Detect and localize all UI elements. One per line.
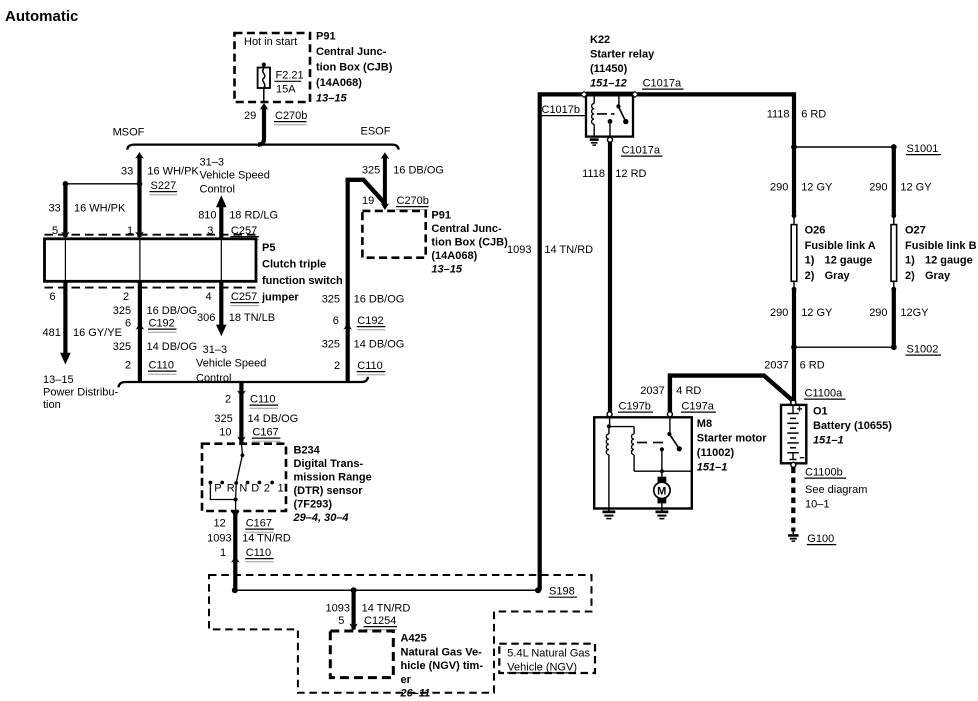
bus wire C110 (second horizontal) [119, 377, 369, 388]
svg-text:151–1: 151–1 [697, 462, 728, 474]
svg-text:S198: S198 [549, 586, 575, 598]
svg-text:4 RD: 4 RD [676, 385, 701, 397]
svg-text:mission Range: mission Range [294, 472, 372, 484]
svg-text:C1017b: C1017b [542, 104, 581, 116]
central junction box P91 (second, dashed) [362, 211, 425, 258]
svg-text:31–3: 31–3 [203, 344, 227, 356]
svg-text:P: P [214, 483, 221, 495]
svg-text:function switch: function switch [262, 275, 343, 287]
svg-text:Gray: Gray [925, 270, 951, 282]
svg-text:Automatic: Automatic [5, 8, 78, 25]
svg-text:P91: P91 [431, 210, 451, 222]
svg-text:1093: 1093 [507, 244, 531, 256]
svg-text:2: 2 [225, 394, 231, 406]
svg-text:(7F293): (7F293) [294, 499, 333, 511]
svg-text:K22: K22 [590, 34, 610, 46]
svg-text:2037: 2037 [640, 385, 664, 397]
node S227 (splice) [63, 180, 177, 195]
svg-text:4: 4 [206, 291, 212, 303]
svg-text:(14A068): (14A068) [431, 250, 477, 262]
svg-text:C167: C167 [246, 518, 272, 530]
central junction box P91 (top, dashed) [235, 33, 311, 102]
svg-text:2: 2 [334, 360, 340, 372]
svg-text:2: 2 [264, 483, 270, 495]
label block A425 Natural Gas Vehicle timer [400, 633, 484, 700]
svg-text:19: 19 [362, 195, 374, 207]
svg-text:C192: C192 [149, 318, 175, 330]
svg-text:C192: C192 [357, 315, 383, 327]
ground G100 [788, 532, 836, 546]
svg-text:16 DB/OG: 16 DB/OG [147, 305, 198, 317]
svg-text:14 TN/RD: 14 TN/RD [242, 533, 291, 545]
wire 325 14 DB/OG (bus down to DTR, 2 C110 / 10 C167) [214, 382, 298, 443]
svg-text:14 DB/OG: 14 DB/OG [354, 339, 405, 351]
clutch switch jumper P5 [45, 239, 257, 281]
svg-text:6 RD: 6 RD [800, 360, 825, 372]
svg-text:Clutch triple: Clutch triple [262, 259, 326, 271]
svg-text:31–3: 31–3 [200, 157, 224, 169]
svg-text:290: 290 [770, 182, 788, 194]
bus wire MSOF/ESOF (horizontal) [127, 145, 398, 150]
svg-text:12 GY: 12 GY [801, 307, 833, 319]
svg-text:C110: C110 [149, 360, 174, 372]
wire 33 16 WH/PK (S227 to P5 pin 5) [49, 184, 127, 239]
svg-text:12 gauge: 12 gauge [825, 255, 873, 267]
svg-text:6 RD: 6 RD [801, 109, 826, 121]
svg-text:12 gauge: 12 gauge [925, 255, 973, 267]
svg-text:Vehicle Speed: Vehicle Speed [196, 358, 266, 370]
svg-text:G100: G100 [807, 533, 834, 545]
svg-text:C1017a: C1017a [643, 78, 682, 90]
svg-text:12GY: 12GY [900, 307, 929, 319]
wire C1017b (relay feed, left vertical long run) [507, 94, 593, 590]
svg-text:325: 325 [322, 294, 340, 306]
svg-text:C257: C257 [231, 291, 257, 303]
fusible link A O26 [791, 216, 797, 292]
svg-text:12: 12 [214, 518, 226, 530]
starter relay K22 box [581, 91, 638, 136]
svg-text:O1: O1 [813, 406, 828, 418]
svg-text:290: 290 [869, 307, 887, 319]
battery O1 [781, 388, 846, 468]
svg-text:(11450): (11450) [590, 63, 628, 75]
svg-text:C197b: C197b [619, 401, 651, 413]
svg-text:16 WH/PK: 16 WH/PK [74, 203, 126, 215]
label 31-3 Vehicle Speed Control (top) [200, 157, 270, 196]
NGV option region (dashed polygon) [209, 575, 592, 693]
svg-text:M: M [657, 486, 666, 498]
svg-text:Central Junc-: Central Junc- [316, 46, 387, 58]
svg-text:S1002: S1002 [907, 344, 939, 356]
svg-text:C270b: C270b [275, 110, 307, 122]
svg-text:14 TN/RD: 14 TN/RD [544, 244, 593, 256]
note box 5.4L Natural Gas Vehicle (NGV) [499, 644, 595, 674]
wire 290 12 GY (right, into fusible link B) [891, 147, 896, 218]
pin labels 6 2 4 C257 (P5 bottom) [50, 291, 260, 306]
svg-text:C1254: C1254 [364, 615, 396, 627]
svg-text:S227: S227 [151, 180, 177, 192]
starter motor internals: switch [637, 417, 682, 451]
svg-text:15A: 15A [276, 84, 296, 96]
svg-text:Gray: Gray [825, 270, 851, 282]
relay coil [592, 93, 595, 137]
svg-text:C167: C167 [252, 427, 278, 439]
svg-text:6: 6 [125, 318, 131, 330]
wire 1093 14 TN/RD (S198 down to NGV timer, 5 C1254) [326, 590, 411, 630]
svg-text:tion Box (CJB): tion Box (CJB) [316, 62, 393, 74]
svg-text:325: 325 [113, 305, 131, 317]
wire C1100b (battery negative, dashed to G100) [793, 467, 867, 532]
svg-text:C197a: C197a [681, 401, 714, 413]
svg-text:1093: 1093 [207, 533, 231, 545]
svg-text:290: 290 [869, 182, 887, 194]
svg-text:5.4L Natural Gas: 5.4L Natural Gas [507, 648, 590, 660]
svg-text:F2.21: F2.21 [276, 70, 304, 82]
svg-text:5: 5 [338, 615, 344, 627]
wire 1093 14 TN/RD (DTR down to S198) [207, 511, 291, 590]
svg-text:2: 2 [125, 360, 131, 372]
label block B234 DTR sensor [293, 445, 372, 525]
svg-text:810: 810 [198, 210, 216, 222]
svg-text:33: 33 [121, 166, 133, 178]
svg-text:151–12: 151–12 [590, 78, 627, 90]
wire 2037 4 RD (starter motor solenoid feed) [618, 376, 792, 413]
wire 325 16 DB/OG (ESOF down from bus, 19 C270b) [362, 152, 444, 210]
svg-text:R: R [227, 483, 235, 495]
fuse F2.21 15A [258, 63, 304, 103]
svg-text:S1001: S1001 [907, 143, 939, 155]
svg-text:C1100a: C1100a [805, 388, 844, 400]
svg-text:16 WH/PK: 16 WH/PK [147, 166, 199, 178]
svg-text:26–11: 26–11 [400, 688, 431, 700]
ground (starter motor right) [656, 509, 669, 520]
svg-text:12 RD: 12 RD [615, 168, 646, 180]
label block P91 Central Junction Box (second) [431, 210, 508, 276]
ground (starter motor left) [603, 509, 616, 520]
label block K22 Starter relay [590, 34, 655, 90]
svg-text:Fusible link B: Fusible link B [905, 240, 977, 252]
svg-text:151–1: 151–1 [813, 435, 844, 447]
label block P5 Clutch triple function switch jumper [261, 242, 343, 304]
svg-text:tion: tion [43, 399, 61, 411]
svg-text:33: 33 [49, 203, 61, 215]
svg-text:1118: 1118 [767, 109, 790, 121]
wire 290 12GY (right lower) [869, 182, 932, 346]
wire 290 12 GY (left, into fusible link A) [792, 147, 797, 218]
svg-text:13–15: 13–15 [316, 93, 347, 105]
svg-text:hicle (NGV) tim-: hicle (NGV) tim- [401, 660, 484, 672]
svg-text:Power Distribu-: Power Distribu- [43, 387, 119, 399]
svg-text:14 DB/OG: 14 DB/OG [147, 341, 198, 353]
svg-text:481: 481 [43, 327, 61, 339]
svg-text:18 TN/LB: 18 TN/LB [229, 312, 275, 324]
svg-text:(14A068): (14A068) [316, 77, 362, 89]
svg-text:1093: 1093 [326, 603, 350, 615]
svg-text:6: 6 [50, 291, 56, 303]
svg-text:10: 10 [219, 427, 231, 439]
wire 306 18 TN/LB (P5 pin 4 down arrow) [196, 281, 275, 384]
wire 325 16 DB/OG (ESOF branch vertical down to bus) [322, 180, 405, 382]
svg-text:Control: Control [200, 184, 235, 196]
DTR sensor B234 (dashed box) [202, 444, 286, 511]
NGV timer A425 (heavy dashed box) [330, 631, 393, 678]
svg-text:er: er [401, 674, 412, 686]
svg-text:2): 2) [805, 270, 815, 282]
relay output pin [608, 119, 613, 142]
svg-text:325: 325 [362, 165, 380, 177]
svg-text:1: 1 [220, 547, 226, 559]
svg-text:B234: B234 [294, 445, 321, 457]
svg-text:14 DB/OG: 14 DB/OG [248, 413, 299, 425]
label block M8 Starter motor [697, 418, 767, 474]
wire 29 C270b (fuse output down to bus) [244, 103, 307, 145]
relay switch [616, 93, 628, 125]
svg-text:MSOF: MSOF [113, 127, 145, 139]
svg-text:13–15: 13–15 [431, 264, 462, 276]
svg-text:tion Box (CJB): tion Box (CJB) [431, 237, 508, 249]
svg-text:325: 325 [214, 413, 232, 425]
svg-text:C110: C110 [357, 360, 382, 372]
svg-text:18 RD/LG: 18 RD/LG [229, 210, 278, 222]
connector C257 dashed line (above P5) [45, 234, 257, 236]
svg-text:Battery (10655): Battery (10655) [813, 420, 892, 432]
svg-text:10–1: 10–1 [805, 499, 829, 511]
svg-text:A425: A425 [401, 633, 427, 645]
svg-text:Natural Gas Ve-: Natural Gas Ve- [401, 646, 483, 658]
svg-text:2): 2) [905, 270, 915, 282]
svg-text:jumper: jumper [261, 292, 299, 304]
svg-text:P91: P91 [316, 31, 336, 43]
wire 325 16/14 DB/OG (P5 pin 2 down to bus C110) [113, 281, 197, 382]
pin labels 5 1 3 C257 (P5 top) [52, 225, 259, 240]
node S198 (splice line) [232, 586, 577, 598]
svg-text:Vehicle (NGV): Vehicle (NGV) [507, 662, 577, 674]
svg-text:Starter relay: Starter relay [590, 49, 655, 61]
wire 481 16 GY/YE (P5 pin 6 down) [43, 281, 122, 411]
wire C1017a (relay output to right, 1118 6 RD) [586, 78, 826, 148]
wire 2037 6 RD (down to battery) [764, 347, 824, 401]
connector C257 dashed line (below P5) [45, 287, 257, 289]
svg-text:(DTR) sensor: (DTR) sensor [294, 485, 364, 497]
svg-text:Starter motor: Starter motor [697, 433, 767, 445]
svg-text:M8: M8 [697, 418, 712, 430]
svg-text:Digital Trans-: Digital Trans- [294, 458, 364, 470]
wire 1118 12 RD (relay to starter motor) [582, 142, 662, 412]
svg-text:C110: C110 [250, 394, 275, 406]
svg-text:Fusible link A: Fusible link A [805, 240, 876, 252]
starter motor M8 box [594, 412, 692, 509]
svg-text:C270b: C270b [397, 195, 429, 207]
svg-text:Vehicle Speed: Vehicle Speed [200, 170, 270, 182]
svg-text:16 GY/YE: 16 GY/YE [73, 327, 122, 339]
motor M [654, 447, 670, 508]
svg-text:6: 6 [333, 315, 339, 327]
label block P91 Central Junction Box (top) [316, 31, 393, 105]
svg-text:16 DB/OG: 16 DB/OG [393, 165, 444, 177]
svg-text:P5: P5 [262, 242, 275, 254]
svg-text:14 TN/RD: 14 TN/RD [362, 603, 411, 615]
relay ground [590, 138, 599, 145]
relay armature dashed link [597, 113, 615, 115]
starter motor internals: solenoid coils [606, 417, 692, 508]
svg-text:C1017a: C1017a [622, 145, 661, 157]
svg-text:16 DB/OG: 16 DB/OG [354, 294, 405, 306]
svg-text:2: 2 [123, 291, 129, 303]
svg-text:29: 29 [244, 110, 256, 122]
svg-text:290: 290 [770, 307, 788, 319]
svg-text:1): 1) [805, 255, 815, 267]
svg-text:325: 325 [113, 341, 131, 353]
svg-text:O26: O26 [805, 225, 826, 237]
svg-text:325: 325 [322, 339, 340, 351]
svg-text:D: D [251, 483, 259, 495]
label block O27 Fusible link B [905, 225, 977, 283]
svg-text:C1100b: C1100b [805, 467, 843, 479]
node S1001 (splice) [791, 143, 941, 155]
svg-text:1: 1 [278, 483, 284, 495]
svg-text:306: 306 [197, 312, 215, 324]
wire 290 12 GY (left lower) [770, 182, 833, 348]
svg-text:(11002): (11002) [697, 447, 735, 459]
svg-text:Hot in start: Hot in start [244, 36, 297, 48]
node S1002 (splice) [791, 344, 941, 356]
label block O26 Fusible link A [805, 225, 876, 283]
fusible link B O27 [891, 216, 897, 292]
svg-text:29–4, 30–4: 29–4, 30–4 [293, 512, 349, 524]
wire 810 18 RD/LG (P5 pin 3 up arrow) [198, 195, 278, 239]
svg-text:12 GY: 12 GY [801, 182, 833, 194]
svg-text:ESOF: ESOF [361, 126, 391, 138]
wire 33 16 WH/PK (MSOF branch down to P5 pin 1) [121, 152, 199, 238]
svg-text:12 GY: 12 GY [900, 182, 932, 194]
svg-text:See diagram: See diagram [805, 484, 867, 496]
label block O1 Battery [813, 406, 892, 447]
svg-text:N: N [239, 483, 247, 495]
svg-text:13–15: 13–15 [43, 374, 74, 386]
svg-text:O27: O27 [905, 225, 926, 237]
svg-text:C110: C110 [246, 547, 271, 559]
svg-text:1): 1) [905, 255, 915, 267]
svg-text:1118: 1118 [582, 168, 605, 180]
svg-text:2037: 2037 [764, 360, 788, 372]
svg-text:Central Junc-: Central Junc- [431, 223, 502, 235]
